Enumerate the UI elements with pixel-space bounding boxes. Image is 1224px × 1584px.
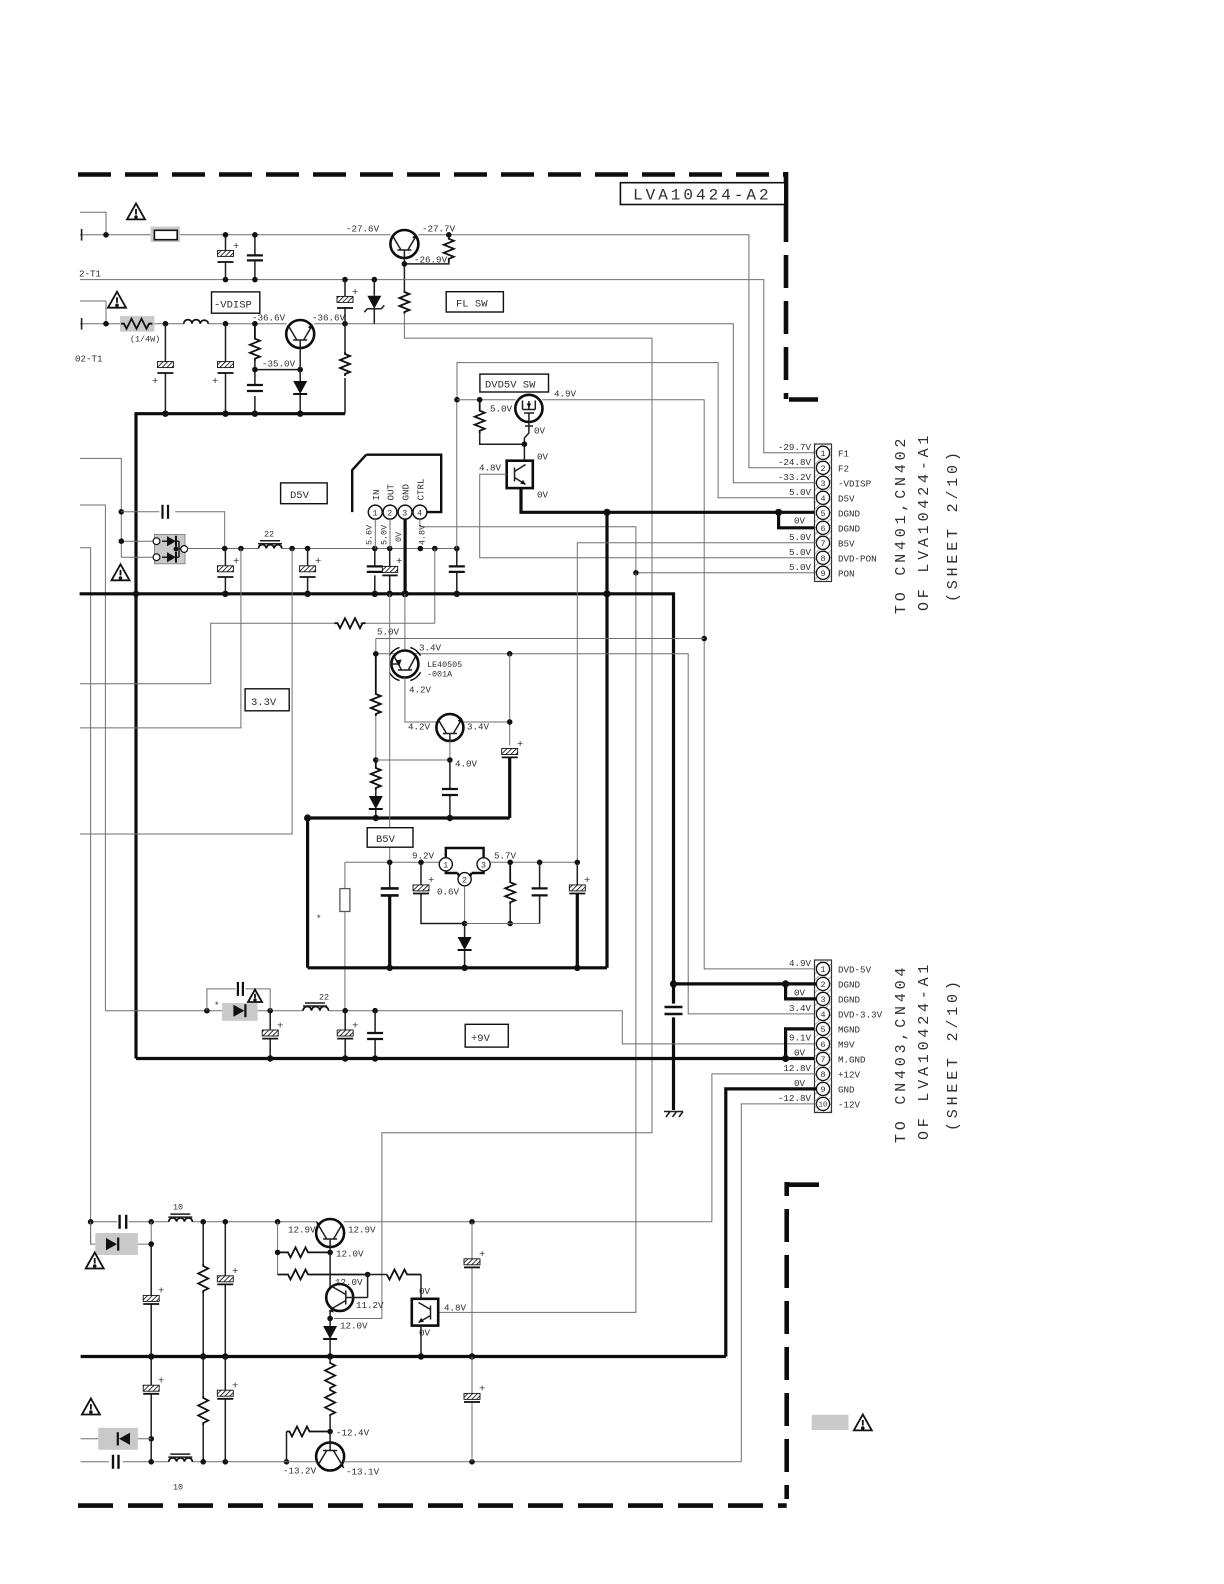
warning triangle (top) — [127, 203, 145, 219]
svg-text:9: 9 — [820, 1085, 825, 1095]
svg-text:6: 6 — [820, 524, 825, 534]
svg-text:-24.8V: -24.8V — [778, 457, 812, 468]
resistor chain x=375.8 lower — [371, 760, 381, 790]
svg-text:7: 7 — [820, 1055, 825, 1065]
svg-text:(SHEET 2/10): (SHEET 2/10) — [945, 977, 962, 1131]
svg-text:OF LVA10424-A1: OF LVA10424-A1 — [916, 961, 933, 1140]
wire -12V to pin10 — [741, 1104, 816, 1462]
svg-text:+: + — [233, 556, 239, 568]
wire 5V rail (D5V input) — [188, 548, 457, 550]
svg-text:GND: GND — [401, 483, 412, 500]
capacitor (film series) bypass over +9V diode — [207, 989, 270, 1011]
svg-text:12.9V: 12.9V — [348, 1224, 376, 1235]
node T1 tap — [103, 232, 109, 238]
regulator U(B5V) 3-pin — [446, 848, 484, 873]
resistor 12.0V row 2 — [278, 1270, 368, 1280]
wire Q(3.3V) collector to cap — [463, 654, 509, 746]
svg-text:B5V: B5V — [838, 538, 855, 549]
svg-text:DGND: DGND — [838, 523, 861, 534]
wire LE40505 emitter 4.2V — [405, 678, 437, 723]
svg-text:-36.6V: -36.6V — [312, 313, 346, 324]
svg-text:5.6V: 5.6V — [365, 525, 375, 545]
svg-text:TO CN403,CN404: TO CN403,CN404 — [893, 964, 910, 1143]
svg-text:6: 6 — [820, 1040, 825, 1050]
svg-text:4.9V: 4.9V — [789, 958, 812, 969]
svg-text:M.GND: M.GND — [838, 1054, 866, 1065]
svg-text:5.0V: 5.0V — [490, 404, 513, 415]
svg-text:4.8V: 4.8V — [418, 525, 428, 545]
svg-text:+: + — [158, 1286, 164, 1298]
wire stub elbow T1 lower — [80, 301, 106, 324]
svg-text:-12V: -12V — [838, 1099, 861, 1110]
svg-text:+: + — [232, 1380, 238, 1392]
D5V regulator package U1 — [352, 455, 441, 512]
transistor Q(-27.6V) pass — [390, 230, 418, 258]
resistor -13.2V feedback — [287, 1427, 331, 1437]
capacitor (electrolytic) x=577.3 — [576, 862, 578, 885]
capacitor (electrolytic) x=472 lower — [471, 1357, 473, 1462]
M.GND bus thick — [136, 1057, 816, 1060]
connector CN403/CN404 — [815, 960, 832, 1113]
svg-text:*: * — [214, 1000, 220, 1011]
thick DGND wire to CN401 pin5 — [521, 488, 816, 512]
svg-text:+: + — [232, 1266, 238, 1278]
svg-text:-13.2V: -13.2V — [283, 1466, 317, 1477]
svg-text:CTRL: CTRL — [415, 478, 426, 500]
capacitor (electrolytic) x=270.2 — [269, 1011, 271, 1059]
wire Q(11.2V) base from 12.0V row — [346, 1275, 368, 1298]
svg-text:5: 5 — [820, 1025, 825, 1035]
resistor (box) * feed from +9V — [344, 862, 346, 1010]
svg-text:9.2V: 9.2V — [412, 851, 435, 862]
svg-text:2: 2 — [387, 509, 392, 519]
wire -12V rectifier rail — [81, 1461, 742, 1463]
svg-text:LE40505: LE40505 — [427, 660, 462, 670]
thick DGND elbow to pin6 — [779, 512, 817, 528]
svg-text:+: + — [352, 1021, 358, 1033]
capacitor (electrolytic) x=225.4 on 5V rail — [224, 549, 226, 594]
svg-text:-33.2V: -33.2V — [778, 472, 812, 483]
svg-text:+: + — [428, 875, 434, 887]
svg-text:5.0V: 5.0V — [789, 487, 812, 498]
svg-text:0V: 0V — [537, 452, 549, 463]
svg-text:GND: GND — [838, 1084, 855, 1095]
svg-text:DGND: DGND — [838, 979, 861, 990]
svg-text:5.0V: 5.0V — [789, 547, 812, 558]
main ground bus DGND — [80, 594, 674, 1004]
svg-text:0V: 0V — [419, 1286, 431, 1297]
pin name labels CN403 — [838, 964, 883, 1110]
svg-text:2-T1: 2-T1 — [79, 269, 102, 280]
svg-text:0V: 0V — [794, 1078, 806, 1089]
wire branch x=292.1 to left edge — [80, 549, 292, 835]
transistor Q(FL 4.8V switch) boxed — [412, 1299, 438, 1326]
svg-text:12.9V: 12.9V — [288, 1224, 316, 1235]
svg-text:F1: F1 — [838, 448, 850, 459]
resistor FL base feed — [387, 1270, 421, 1280]
warning triangle (-12V) — [82, 1399, 100, 1415]
resistor 5V feed (x=434.8 branch) — [80, 549, 435, 684]
label box FL SW — [446, 292, 503, 312]
svg-text:11.2V: 11.2V — [356, 1300, 384, 1311]
svg-text:+: + — [152, 376, 158, 388]
svg-text:OF LVA10424-A1: OF LVA10424-A1 — [916, 432, 933, 611]
svg-text:D5V: D5V — [838, 493, 855, 504]
svg-text:DGND: DGND — [838, 508, 861, 519]
transistor Q(12.9V) pass — [316, 1219, 344, 1247]
svg-text:-13.1V: -13.1V — [346, 1466, 380, 1477]
svg-text:5: 5 — [820, 509, 825, 519]
svg-text:DGND: DGND — [838, 994, 861, 1005]
wire FL emitter chain down to FL switch line — [334, 314, 652, 1319]
wire module pin1 — [121, 540, 154, 542]
warning triangle (legend) — [854, 1414, 872, 1430]
capacitor (film series) +12V input — [118, 1215, 120, 1229]
resistor (fusible, highlighted) on -27.6V rail — [151, 227, 180, 243]
svg-text:12.0V: 12.0V — [340, 1320, 368, 1331]
wire -27.6V rail to F2 — [80, 235, 816, 468]
capacitor (electrolytic) x=151.2 upper — [150, 1244, 152, 1356]
thick MGND elbow to pin5 — [786, 1029, 817, 1059]
transistor Q(3.3V) — [436, 714, 463, 741]
warning triangle (+9V diode) — [248, 990, 262, 1002]
wire D5V pin1 lead — [374, 519, 376, 548]
thick DGND wire to CN403 pin2 and pin3 — [674, 984, 817, 999]
svg-text:2: 2 — [820, 464, 825, 474]
inductor 22uH on 5V rail — [259, 545, 282, 549]
label box +9V — [465, 1024, 508, 1047]
svg-text:+: + — [517, 739, 523, 751]
svg-text:-29.7V: -29.7V — [778, 442, 812, 453]
diode module (dual diode, highlighted) — [154, 534, 185, 563]
voltage labels CN401 — [778, 442, 812, 573]
svg-text:(SHEET 2/10): (SHEET 2/10) — [945, 448, 962, 602]
svg-text:3.3V: 3.3V — [251, 697, 277, 709]
capacitor (electrolytic) x=151.2 lower — [150, 1357, 152, 1439]
svg-text:DVD-3.3V: DVD-3.3V — [838, 1009, 883, 1020]
sheet boundary dashed border right upper — [784, 172, 789, 399]
wire -35.0V node — [255, 360, 300, 414]
svg-text:3.4V: 3.4V — [419, 643, 442, 654]
svg-text:-26.9V: -26.9V — [414, 255, 448, 266]
svg-text:22: 22 — [264, 530, 274, 540]
svg-text:3.4V: 3.4V — [467, 722, 490, 733]
svg-text:5.7V: 5.7V — [494, 851, 517, 862]
resistor x=254.9 (-35.0V chain) — [250, 324, 260, 361]
capacitor (electrolytic) x=509.7 — [502, 749, 518, 755]
svg-text:4.9V: 4.9V — [554, 389, 577, 400]
svg-text:10: 10 — [819, 1102, 828, 1110]
svg-text:DVD5V SW: DVD5V SW — [485, 380, 536, 392]
svg-text:FL SW: FL SW — [456, 299, 488, 311]
svg-text:+: + — [277, 1021, 283, 1033]
svg-text:-001A: -001A — [427, 670, 453, 680]
svg-text:OUT: OUT — [386, 483, 397, 500]
wire DVD-PON (4.8V base) to CN401 pin8 — [480, 474, 817, 558]
wire pin2 bottom link — [465, 923, 540, 925]
svg-text:+: + — [479, 1384, 485, 1396]
label box 3.3V — [245, 689, 289, 711]
wire stub y=547.8 down left column — [80, 548, 91, 1244]
svg-text:9.1V: 9.1V — [789, 1033, 812, 1044]
thick GND wire CN403 pin9 to bottom bus — [726, 1089, 817, 1357]
svg-text:0V: 0V — [794, 1047, 806, 1058]
svg-text:-12.8V: -12.8V — [778, 1093, 812, 1104]
svg-text:-36.6V: -36.6V — [252, 313, 286, 324]
diode x=300.2 to ground — [299, 348, 301, 414]
node dots on -27.6V rail — [223, 232, 229, 238]
transistor Q(11.2V) — [326, 1284, 353, 1311]
wire +12V rectifier rail — [91, 1221, 712, 1223]
capacitor (electrolytic) x=472 upper — [471, 1222, 473, 1357]
svg-text:4.0V: 4.0V — [455, 759, 478, 770]
capacitor (film) x=539.6 — [539, 862, 541, 923]
diode (+9V, highlighted) — [222, 1003, 258, 1021]
svg-text:DVD-PON: DVD-PON — [838, 553, 877, 564]
capacitor (film) x=375.1 — [374, 1011, 376, 1059]
label box B5V — [367, 828, 413, 848]
svg-text:+: + — [396, 556, 402, 568]
wire 4.8V switch emitter to bus — [420, 1326, 422, 1357]
wire D5V pin4 CTRL to PON — [420, 519, 817, 573]
svg-text:12.0V: 12.0V — [336, 1248, 364, 1259]
resistor 5.0V to 0V node — [475, 400, 485, 434]
wire stub elbow T1 top — [80, 212, 106, 235]
svg-text:10: 10 — [173, 1483, 183, 1493]
thick ground wire -VDISP section — [136, 414, 345, 1059]
resistor x=203.2 lower — [202, 1357, 204, 1397]
inductor 10uH +12V — [169, 1218, 193, 1222]
sheet boundary dashed border top — [78, 172, 786, 177]
svg-text:1: 1 — [820, 449, 825, 459]
resistor x=203.2 upper — [202, 1222, 204, 1264]
svg-text:PON: PON — [838, 568, 855, 579]
warning triangle (module) — [112, 564, 130, 580]
wire 0.6V pin2 — [464, 886, 466, 924]
wire Q(12.9V) base node — [329, 1247, 331, 1252]
wire 2-T1 rail to F1 — [80, 280, 816, 453]
transistor LE40505-001A — [391, 651, 418, 678]
capacitor (electrolytic) x=421 — [421, 862, 465, 923]
wire 9.2V input — [345, 861, 439, 863]
label box -VDISP — [212, 292, 260, 313]
svg-text:0.6V: 0.6V — [437, 886, 460, 897]
sheet title box LVA10424-A2 — [620, 183, 784, 205]
svg-text:3: 3 — [820, 479, 825, 489]
svg-text:0V: 0V — [394, 532, 404, 542]
wire 3.4V collector line to DVD-3.3V — [376, 639, 817, 1014]
pin name labels CN401 — [838, 448, 877, 579]
svg-text:TO CN401,CN402: TO CN401,CN402 — [893, 435, 910, 614]
capacitor (film) x=456.8 — [456, 549, 458, 594]
wire PON net down to 4.8V switch — [438, 573, 636, 1313]
resistor (1/4W, highlighted) — [120, 316, 154, 332]
wire stub y=505 down left column — [80, 505, 105, 1011]
capacitor (film) x=449.9 base — [449, 760, 451, 818]
svg-text:+: + — [584, 875, 590, 887]
svg-text:22: 22 — [319, 993, 329, 1003]
wire MOSFET source to switch transistor — [524, 417, 533, 461]
svg-text:+: + — [479, 1249, 485, 1261]
svg-text:0V: 0V — [534, 426, 546, 437]
capacitor (film) x=254.9 — [247, 384, 263, 386]
svg-text:4.8V: 4.8V — [444, 1302, 467, 1313]
svg-text:7: 7 — [820, 539, 825, 549]
wire emitter to resistor bottom — [404, 258, 448, 291]
transistor Q(-13.2V) — [329, 1432, 331, 1443]
svg-text:F2: F2 — [838, 463, 849, 474]
legend highlighted-part sample — [812, 1415, 849, 1430]
svg-text:9: 9 — [820, 569, 825, 579]
capacitor (electrolytic) x=345.2 — [344, 1011, 346, 1059]
svg-text:4: 4 — [820, 1010, 825, 1020]
wire 5.0V base feed line — [376, 638, 704, 640]
diode x=464.6 to B5V ground — [464, 924, 466, 938]
thick DGND riser to B5V ground — [605, 512, 608, 968]
wire B5V to CN401 pin7 — [577, 543, 816, 863]
diode x=375.8 to 3.3V rail — [375, 790, 377, 796]
svg-text:-27.6V: -27.6V — [346, 224, 380, 235]
capacitor (film) x=389.7 — [389, 862, 391, 888]
svg-text:4.2V: 4.2V — [409, 685, 432, 696]
svg-text:8: 8 — [820, 1070, 825, 1080]
svg-text:MGND: MGND — [838, 1024, 861, 1035]
svg-text:4: 4 — [820, 494, 825, 504]
svg-text:5.0V: 5.0V — [789, 532, 812, 543]
warning triangle (second) — [108, 292, 126, 308]
wire Q(3.3V) base 4.0V — [376, 741, 450, 760]
svg-text:+: + — [158, 1375, 164, 1387]
svg-text:10: 10 — [173, 1203, 183, 1213]
diode (+12V, highlighted) bridging series cap — [91, 1222, 152, 1244]
capacitor (electrolytic) at x=225.5 top — [225, 235, 227, 280]
svg-text:1: 1 — [443, 861, 448, 871]
svg-text:*: * — [316, 913, 322, 924]
warning triangle (+12V) — [86, 1253, 104, 1269]
wire stub y=458.4 to diode module — [80, 458, 154, 557]
svg-text:+9V: +9V — [471, 1033, 491, 1045]
svg-text:+12V: +12V — [838, 1069, 861, 1080]
transistor Q(-36.6V) — [286, 320, 314, 348]
chassis ground symbol — [664, 1112, 683, 1118]
resistor base feed upper — [277, 1222, 279, 1275]
svg-text:IN: IN — [371, 489, 382, 500]
svg-text:3: 3 — [481, 861, 486, 871]
transistor Q(4.8V switch) boxed — [507, 461, 533, 488]
resistor x=345 to ground — [344, 324, 346, 352]
voltage labels CN403 — [778, 958, 812, 1104]
svg-text:8: 8 — [820, 554, 825, 564]
B5V ground rail thick — [308, 966, 607, 969]
svg-text:12.8V: 12.8V — [783, 1063, 811, 1074]
capacitor (film) at x=254.9 top — [254, 235, 256, 280]
capacitor (electrolytic) x=225.5 lower — [225, 324, 227, 414]
capacitor (electrolytic) x=307.6 on 5V rail — [307, 549, 309, 594]
wire 4.9V DVD5V rail — [457, 400, 816, 969]
wire GND stub into LE40505 — [404, 594, 406, 650]
zener diode x=374.3 — [373, 280, 375, 324]
inductor 10uH -12V — [169, 1458, 193, 1462]
svg-text:5.0V: 5.0V — [377, 627, 400, 638]
svg-text:1: 1 — [373, 509, 378, 519]
svg-text:M9V: M9V — [838, 1039, 855, 1050]
sheet boundary dashed border bottom — [78, 1503, 787, 1508]
capacitor (film series) -12V input — [112, 1455, 114, 1469]
svg-text:2: 2 — [462, 876, 467, 886]
svg-text:5.0V: 5.0V — [789, 562, 812, 573]
svg-text:D5V: D5V — [290, 490, 310, 502]
resistor -26.9V vertical — [444, 235, 454, 263]
sheet boundary dashed border right lower — [788, 1182, 819, 1187]
capacitor (film series) bypass over diode module — [121, 512, 224, 549]
svg-text:3.4V: 3.4V — [789, 1003, 812, 1014]
svg-text:(1/4W): (1/4W) — [130, 335, 160, 345]
svg-text:4.8V: 4.8V — [479, 463, 502, 474]
svg-text:0V: 0V — [794, 516, 806, 527]
wire 5.7V output — [490, 861, 577, 863]
wire D5V pin3 GND thick — [404, 519, 407, 594]
wire D5V pin2 lead — [389, 519, 391, 548]
svg-text:2: 2 — [820, 980, 825, 990]
svg-text:+: + — [315, 556, 321, 568]
node on rail right of Q — [446, 232, 452, 238]
svg-text:+: + — [212, 376, 218, 388]
capacitor (film) in DGND drop x=673.5 — [665, 1006, 683, 1009]
resistor pair x=330.1 below bus — [329, 1357, 331, 1363]
capacitor (electrolytic) x=225.3 upper — [224, 1222, 226, 1357]
capacitor (film+electrolytic pair) under D5V pins — [375, 549, 390, 594]
connector CN401/CN402 — [815, 444, 832, 582]
inductor L (vdisp) — [184, 320, 209, 324]
wire +9V rail — [105, 1011, 816, 1044]
svg-text:-35.0V: -35.0V — [262, 359, 296, 370]
capacitor (electrolytic) x=225.3 lower — [224, 1357, 226, 1462]
resistor x=510.2 — [505, 862, 515, 904]
wire D5V OUT loop to CN401 pin4 — [457, 363, 817, 549]
label box DVD5V SW — [480, 374, 549, 392]
3.3V local ground rail (thick) — [308, 816, 510, 819]
wire Q(11.2V) emitter node — [330, 1309, 333, 1319]
inductor 22uH +9V — [303, 1006, 328, 1010]
svg-text:3: 3 — [820, 995, 825, 1005]
svg-text:-VDISP: -VDISP — [838, 478, 872, 489]
svg-text:-12.4V: -12.4V — [336, 1427, 370, 1438]
svg-text:0V: 0V — [537, 490, 549, 501]
capacitor (electrolytic) x=345 between rails — [344, 280, 346, 324]
resistor chain x=375.8 upper — [371, 654, 381, 716]
svg-text:02-T1: 02-T1 — [75, 354, 103, 365]
label box D5V — [281, 483, 328, 504]
svg-text:DVD-5V: DVD-5V — [838, 964, 872, 975]
svg-text:1: 1 — [820, 965, 825, 975]
resistor FL emitter chain x=404.4 — [399, 291, 409, 314]
svg-text:+: + — [352, 287, 358, 299]
B5V block left rail thick — [306, 818, 309, 968]
svg-text:LVA10424-A2: LVA10424-A2 — [633, 187, 772, 205]
wire branch x=240.9 to left edge — [80, 549, 241, 728]
diode (-12V, highlighted) — [81, 1438, 152, 1440]
capacitor (electrolytic) x=165.4 — [164, 324, 166, 414]
svg-text:4.2V: 4.2V — [408, 722, 431, 733]
wire -36.6V rail to -VDISP pin3 — [80, 324, 816, 483]
svg-text:4: 4 — [417, 509, 422, 519]
svg-text:3: 3 — [402, 509, 407, 519]
svg-text:+: + — [233, 241, 239, 253]
svg-text:-VDISP: -VDISP — [214, 300, 252, 312]
wire base chain to Q(11.2V) — [329, 1252, 331, 1289]
MOSFET Q(DVD5V SW) — [515, 395, 542, 422]
svg-text:5.0V: 5.0V — [380, 525, 390, 545]
